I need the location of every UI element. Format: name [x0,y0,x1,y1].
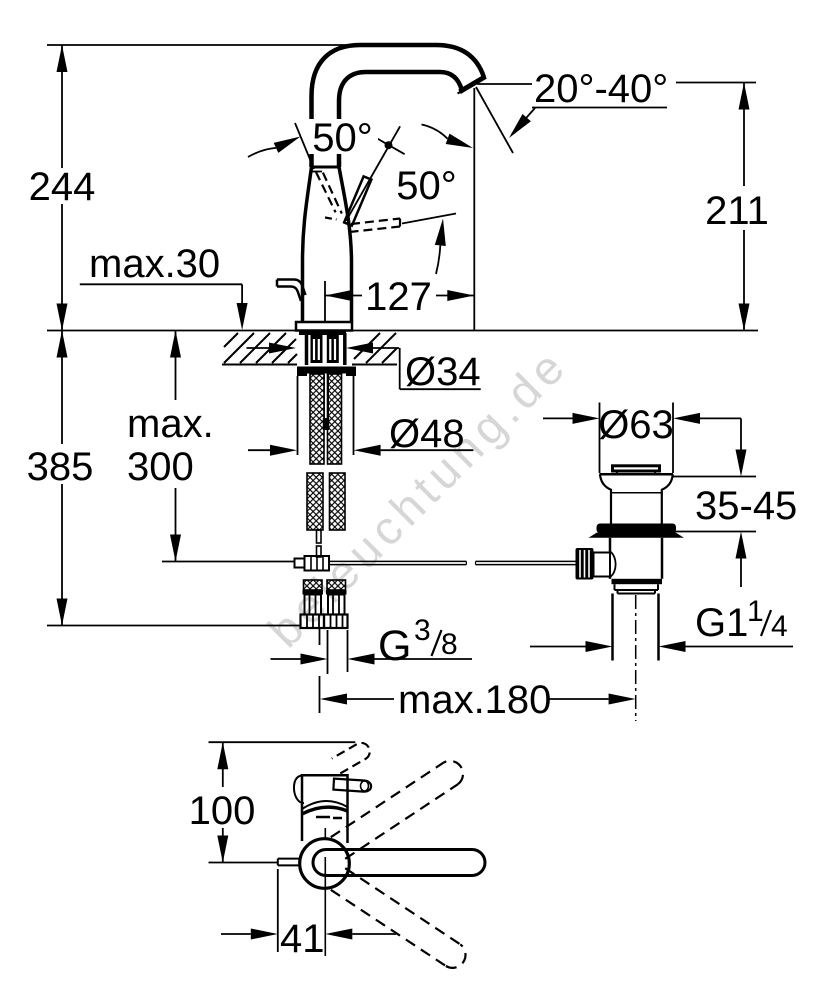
dimension 127 [324,281,326,323]
knurled knob [576,548,594,580]
drain tailpipe [611,594,614,661]
counter bottom line right [352,364,397,366]
20-40 leader lines [477,83,532,85]
dashed stick horizontal [351,219,400,225]
svg-text:3: 3 [414,614,431,647]
spout outlet face [460,77,486,92]
drain bottom rings [615,584,659,590]
G3/8 connector right [327,580,346,590]
bottom view: 100 bottom ref line [209,862,278,864]
svg-text:4: 4 [771,610,788,643]
svg-text:127: 127 [365,275,432,319]
swivel 50 text [307,119,378,154]
faucet body right edge [339,167,352,322]
escutcheon flange below counter [299,331,346,336]
pop-up rod upper [323,374,325,430]
tailpipe center line [635,595,637,721]
hose lower right [330,473,346,530]
dimension O63 extension lines [599,403,601,474]
svg-text:8: 8 [441,628,458,661]
dimension O48 extension lines [297,376,299,455]
dimension 35-45 [740,418,742,450]
dashed handle upper [345,784,458,859]
dimension 211 [676,82,756,84]
drain seal ring [597,524,677,534]
top view left curl [294,775,308,803]
svg-text:300: 300 [127,445,194,489]
svg-text:244: 244 [29,165,96,209]
top view center line [324,828,326,839]
hose upper right [328,374,342,464]
top view handle capsule [313,850,485,876]
svg-text:385: 385 [27,445,94,489]
dimension 244 line [61,45,63,168]
dimension O63 [543,417,573,419]
swivel arc left [248,148,276,157]
svg-text:100: 100 [189,789,256,833]
pop-up rod lower pieces [317,530,322,543]
pivot dot [385,141,393,149]
counter hatch left [224,333,297,363]
svg-text:211: 211 [705,189,769,233]
drain bell right [662,474,673,523]
dimension G1 1/4 [530,646,586,648]
spout tip vertical line [473,88,475,331]
svg-text:35-45: 35-45 [695,484,797,528]
tick below joint [310,171,322,173]
counter reference line [47,330,758,332]
svg-text:1: 1 [747,595,764,628]
dashed stick axis [402,214,456,224]
bottom view: 100 top ref line [209,741,356,743]
svg-text:max.: max. [127,402,214,446]
svg-text:20°-40°: 20°-40° [534,67,668,111]
svg-text:Ø48: Ø48 [389,412,465,456]
dimension max300 line [175,331,177,401]
drain seal skirt [589,533,685,538]
mounting washer [297,367,356,374]
svg-text:max.30: max.30 [89,242,220,286]
top view rod stub [278,858,300,860]
svg-text:G: G [378,622,411,670]
drain pop-up knob [613,466,660,471]
horizontal pop-up rod [329,560,466,562]
dimension 385 line [61,331,63,445]
spout outer outline [312,45,485,167]
max300 bottom reference line [162,561,295,563]
stick axis line through pivot [346,126,400,220]
hose lower left [307,473,323,530]
svg-text:50°: 50° [312,116,373,160]
max180 left extension line [319,628,321,645]
max.30 leader [80,283,242,285]
shank walls [305,333,309,365]
svg-text:Ø34: Ø34 [405,350,481,394]
svg-text:max.180: max.180 [398,678,551,722]
top view lever stick [333,779,371,792]
swivel arc right [422,125,448,139]
svg-text:G1: G1 [695,601,748,645]
top view body [302,775,348,843]
dashed handle lower [331,890,446,966]
G3/8 dimension [271,658,302,660]
drain black band [612,579,663,584]
dimension 100 [222,742,224,787]
G3/8 dim extension lines [327,630,329,674]
dimension 35-45 extension lines [672,476,757,478]
swivel extension diagonal [295,123,314,169]
threaded stud right [327,335,339,363]
dimension max180 [320,694,347,705]
drain body [609,538,612,553]
top view spout arcs [302,801,348,809]
top reference line [47,44,362,46]
drain outlet inner arc [610,552,616,578]
body joint line [312,166,340,169]
outlet angle diagonal [476,87,513,153]
threaded stud left [311,335,323,363]
escutcheon [296,322,352,331]
svg-text:50°: 50° [396,164,457,208]
svg-text:Ø63: Ø63 [598,403,674,447]
G3/8 connector left [304,580,323,590]
dimension O48 [248,449,270,451]
counter bottom line left [222,364,297,366]
lever side view [277,280,306,296]
counter hatch right [354,333,397,363]
hose upper left [310,374,324,464]
dimension O34 leader [247,347,271,349]
drain flange top [600,473,674,476]
temperature stick solid [344,176,371,225]
dashed spout top view [332,743,370,773]
385 bottom reference line [47,625,302,627]
dimension 41 [277,869,279,952]
top view outer circle [300,839,350,889]
svg-text:41: 41 [280,917,325,961]
internal dashed channels [316,172,336,212]
spout inner outline [339,72,462,167]
lever arc [436,245,440,274]
drain bell left [600,474,611,523]
knob neck [594,553,611,577]
rod coupler [295,559,305,568]
drain bell seam [611,492,662,494]
G3/8 connector right nut [324,615,348,629]
G3/8 connector left nut [301,615,325,629]
faucet body left edge [303,167,312,322]
pivot cross line [373,136,404,154]
